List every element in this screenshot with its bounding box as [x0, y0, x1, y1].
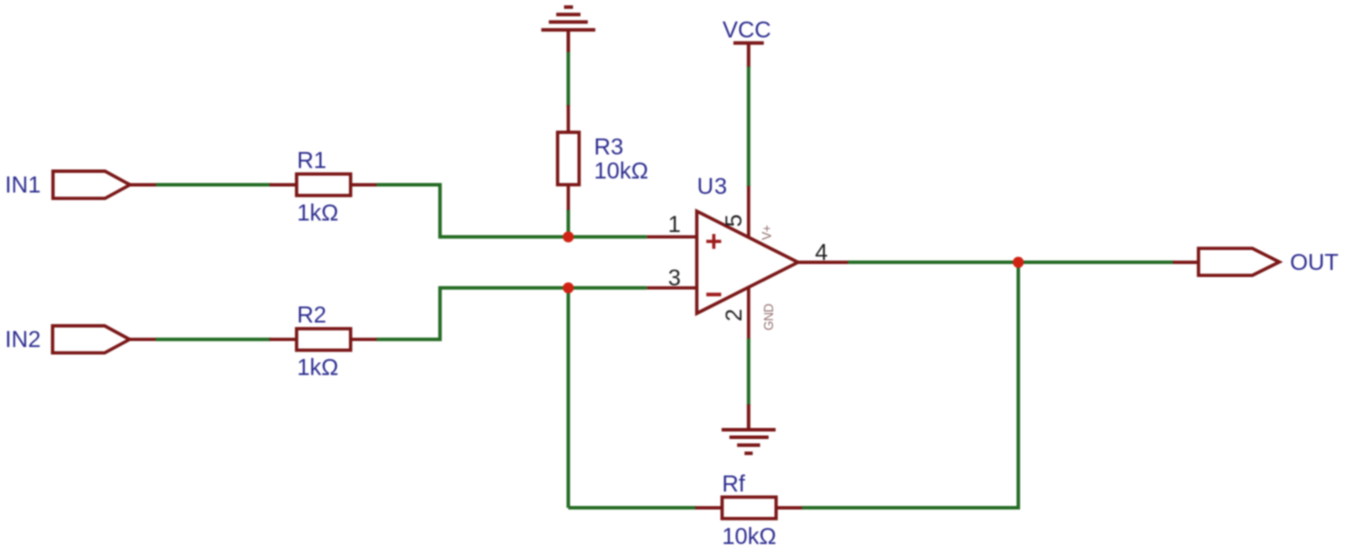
svg-text:U3: U3	[697, 173, 728, 199]
wire IN2 to R2	[156, 338, 271, 342]
VCC symbol	[733, 43, 763, 68]
svg-text:Rf: Rf	[722, 471, 746, 497]
svg-text:10kΩ: 10kΩ	[722, 523, 776, 549]
junction node OUT	[1013, 257, 1024, 268]
junction node B	[563, 282, 574, 293]
resistor R1	[270, 174, 378, 196]
wire supply symbol to R3	[567, 52, 571, 106]
wire node B down to feedback row	[567, 288, 571, 508]
connector IN2 lead	[130, 338, 157, 341]
svg-text:IN1: IN1	[5, 172, 41, 198]
wire R3 to node A	[567, 210, 571, 238]
wire R2 to pin 3	[377, 288, 647, 340]
plus marking	[706, 234, 721, 249]
wire R1 to pin 1	[377, 185, 647, 237]
junction node A	[563, 231, 574, 242]
pin 2 lead	[747, 287, 750, 339]
connector IN1 lead	[130, 183, 157, 186]
resistor Rf	[695, 497, 803, 518]
svg-text:GND: GND	[762, 304, 776, 331]
connector OUT lead	[1173, 261, 1199, 264]
wire feedback row to Rf	[568, 506, 696, 510]
pin 4 lead	[798, 261, 849, 264]
pin 5 lead	[747, 186, 750, 238]
connector IN2	[53, 326, 130, 353]
svg-text:10kΩ: 10kΩ	[594, 158, 648, 184]
svg-text:2: 2	[721, 309, 747, 322]
svg-text:VCC: VCC	[723, 17, 772, 43]
wire IN1 to R1	[156, 183, 271, 187]
svg-text:IN2: IN2	[5, 326, 41, 352]
svg-text:R2: R2	[297, 302, 326, 328]
wire pin 2 to ground	[747, 338, 751, 405]
svg-text:V+: V+	[760, 225, 774, 240]
pin 1 lead	[647, 235, 697, 238]
supply rail symbol (inverted earth) top	[541, 7, 595, 53]
resistor R2	[270, 329, 378, 351]
svg-text:3: 3	[668, 265, 681, 291]
svg-text:OUT: OUT	[1290, 249, 1339, 275]
svg-text:5: 5	[721, 214, 747, 227]
wire pin 4 to OUT	[848, 261, 1174, 265]
op-amp U3 triangle	[697, 211, 798, 313]
connector OUT	[1199, 248, 1280, 275]
wire VCC to pin 5	[747, 67, 751, 187]
resistor R3	[558, 105, 580, 211]
connector IN1	[53, 171, 130, 198]
pin 3 lead	[647, 286, 697, 289]
svg-text:R3: R3	[594, 134, 623, 160]
svg-text:4: 4	[815, 239, 828, 265]
svg-text:1kΩ: 1kΩ	[297, 354, 339, 380]
ground symbol bottom	[722, 404, 776, 453]
wire Rf to output node	[802, 262, 1018, 508]
minus marking	[706, 293, 721, 297]
svg-text:1: 1	[668, 211, 681, 237]
svg-text:R1: R1	[297, 147, 326, 173]
svg-text:1kΩ: 1kΩ	[297, 200, 339, 226]
